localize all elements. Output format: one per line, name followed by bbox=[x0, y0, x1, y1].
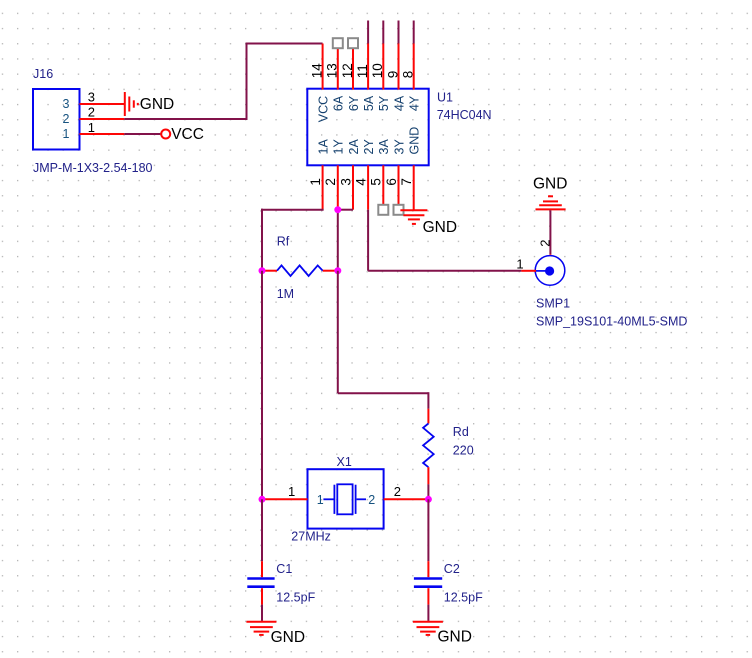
connector J16 body bbox=[33, 89, 80, 150]
wire U1 pin1 to left bus bbox=[261, 209, 324, 211]
J16 pin 1 bbox=[80, 133, 125, 135]
svg-text:2: 2 bbox=[88, 104, 95, 119]
X1 right lead line bbox=[357, 498, 366, 500]
svg-text:2: 2 bbox=[63, 112, 70, 126]
wire left bus down to Rf left bbox=[261, 209, 263, 271]
svg-text:2: 2 bbox=[323, 178, 338, 186]
SMP1 center lead bbox=[535, 270, 548, 272]
U1 pin 11 (top) bbox=[367, 44, 369, 90]
wire Rf right down bbox=[337, 271, 339, 394]
no-connect marker U1 pin 13 bbox=[333, 38, 343, 48]
U1 pin 1 (bottom) bbox=[322, 165, 324, 209]
op-amp U1 body bbox=[307, 89, 428, 166]
svg-text:1: 1 bbox=[88, 120, 95, 135]
J16 pin 2 bbox=[80, 118, 125, 120]
U1 pin 8 (top) bbox=[413, 44, 415, 90]
svg-text:SMP_19S101-40ML5-SMD: SMP_19S101-40ML5-SMD bbox=[536, 314, 687, 328]
svg-text:2: 2 bbox=[537, 240, 552, 247]
svg-text:VCC: VCC bbox=[316, 96, 330, 122]
X1 left lead line bbox=[323, 498, 334, 500]
svg-text:9: 9 bbox=[385, 71, 400, 79]
svg-text:7: 7 bbox=[399, 178, 414, 186]
svg-text:5: 5 bbox=[369, 178, 384, 186]
wire across to Rd bbox=[338, 392, 429, 394]
svg-text:C2: C2 bbox=[444, 562, 460, 576]
no-connect marker U1 pin 5 bbox=[378, 205, 388, 215]
capacitor C1 bbox=[247, 577, 274, 580]
svg-text:GND: GND bbox=[423, 219, 457, 236]
X1 right plate bbox=[355, 485, 357, 514]
svg-text:1: 1 bbox=[317, 493, 324, 507]
U1 pin 4 (bottom) bbox=[367, 165, 369, 209]
wire C1 to ground bbox=[261, 605, 263, 621]
svg-text:3Y: 3Y bbox=[392, 139, 406, 155]
wire from U1 pin 11 off-page bbox=[367, 21, 369, 44]
wire U1 pin4 down bbox=[367, 210, 369, 271]
junction at X1 pin 2 bbox=[425, 496, 432, 503]
svg-text:GND: GND bbox=[533, 175, 567, 192]
svg-text:SMP1: SMP1 bbox=[536, 297, 570, 311]
SMP1 pin 2 bbox=[549, 254, 551, 256]
svg-text:J16: J16 bbox=[33, 67, 53, 81]
svg-text:U1: U1 bbox=[437, 91, 453, 105]
svg-text:1Y: 1Y bbox=[332, 139, 346, 155]
U1 pin 10 (top) bbox=[382, 44, 384, 90]
U1 pin 14 (top) bbox=[322, 44, 324, 90]
svg-text:6: 6 bbox=[384, 178, 399, 186]
svg-text:VCC: VCC bbox=[171, 126, 204, 143]
SMP1 center pin dot bbox=[545, 266, 554, 275]
svg-text:4Y: 4Y bbox=[408, 95, 422, 111]
ground symbol at SMP1 (inverted) bbox=[548, 195, 553, 197]
svg-text:13: 13 bbox=[325, 63, 340, 78]
wire from U1 pin 9 off-page bbox=[398, 21, 400, 44]
svg-text:11: 11 bbox=[355, 64, 370, 78]
capacitor C2 bottom lead bbox=[427, 588, 429, 604]
X1 left plate bbox=[333, 485, 335, 514]
svg-text:GND: GND bbox=[438, 629, 472, 646]
wire junction down to Rf right bbox=[337, 210, 339, 271]
ground symbol at U1 pin 7 bbox=[400, 209, 427, 211]
svg-text:GND: GND bbox=[271, 629, 305, 646]
resistor Rd bottom lead bbox=[427, 467, 429, 484]
svg-text:12.5pF: 12.5pF bbox=[444, 590, 483, 604]
svg-text:27MHz: 27MHz bbox=[291, 530, 331, 544]
junction at U1 pin2 node bbox=[334, 206, 341, 213]
wire X1 junction down to C1 bbox=[261, 499, 263, 561]
VCC power symbol bbox=[161, 130, 170, 139]
svg-text:12.5pF: 12.5pF bbox=[276, 590, 315, 604]
wire from U1 pin 8 off-page bbox=[413, 21, 415, 44]
svg-text:C1: C1 bbox=[276, 562, 292, 576]
svg-text:8: 8 bbox=[401, 71, 416, 79]
wire U1 pin3 to junction bbox=[338, 209, 353, 211]
U1 pin 5 (bottom) bbox=[382, 165, 384, 209]
svg-text:1: 1 bbox=[288, 484, 295, 499]
wire X1 junction down to C2 bbox=[427, 499, 429, 561]
svg-text:14: 14 bbox=[309, 63, 324, 79]
svg-text:6A: 6A bbox=[332, 95, 346, 111]
svg-text:3: 3 bbox=[63, 97, 70, 111]
svg-text:GND: GND bbox=[140, 96, 174, 113]
wire J16 pin2 to U1 pin14 bbox=[124, 44, 322, 120]
U1 pin 3 (bottom) bbox=[352, 165, 354, 209]
svg-text:1M: 1M bbox=[277, 287, 294, 301]
wire down to Rd top bbox=[427, 392, 429, 409]
wire J16 pin1 to VCC bbox=[124, 133, 160, 135]
svg-text:6Y: 6Y bbox=[347, 95, 361, 111]
SMP1 pin 1 bbox=[521, 270, 536, 272]
wire U1 pin4 to SMP1 bbox=[368, 270, 521, 272]
U1 pin 9 (top) bbox=[398, 44, 400, 90]
X1 crystal rectangle bbox=[337, 484, 352, 514]
ground symbol at C2 bbox=[413, 621, 443, 623]
no-connect marker U1 pin 6 bbox=[394, 205, 404, 215]
capacitor C2 bbox=[414, 577, 442, 580]
capacitor C1 top lead bbox=[261, 561, 263, 577]
svg-text:5A: 5A bbox=[362, 95, 376, 111]
wire C2 to ground bbox=[427, 605, 429, 621]
J16 pin 3 bbox=[80, 103, 125, 105]
svg-text:GND: GND bbox=[408, 127, 422, 155]
svg-text:1A: 1A bbox=[316, 139, 330, 155]
svg-text:Rd: Rd bbox=[453, 425, 469, 439]
svg-text:3: 3 bbox=[338, 178, 353, 186]
svg-text:220: 220 bbox=[453, 443, 474, 457]
U1 pin 7 (bottom) bbox=[413, 165, 415, 209]
svg-text:Rf: Rf bbox=[277, 235, 290, 249]
U1 pin 2 (bottom) bbox=[337, 165, 339, 209]
connector SMP1 body bbox=[535, 256, 565, 286]
U1 pin 6 (bottom) bbox=[398, 165, 400, 209]
svg-text:3A: 3A bbox=[377, 139, 391, 155]
wire Rd to X1 junction bbox=[427, 484, 429, 499]
wire from U1 pin 10 off-page bbox=[382, 21, 384, 44]
junction at Rf right bbox=[334, 267, 341, 274]
resistor Rf left lead bbox=[262, 270, 277, 272]
capacitor C1 bottom lead bbox=[261, 588, 263, 604]
svg-text:2: 2 bbox=[394, 484, 401, 499]
junction at Rf left bbox=[259, 267, 266, 274]
resistor Rd bbox=[423, 424, 434, 468]
U1 pin 12 (top) bbox=[352, 44, 354, 90]
ground symbol at J16 pin 3 bbox=[124, 92, 126, 116]
svg-text:2: 2 bbox=[368, 493, 375, 507]
resistor Rf bbox=[277, 265, 323, 276]
no-connect marker U1 pin 12 bbox=[348, 38, 358, 48]
svg-text:5Y: 5Y bbox=[377, 95, 391, 111]
svg-text:2A: 2A bbox=[347, 139, 361, 155]
svg-text:3: 3 bbox=[88, 90, 95, 105]
U1 pin 13 (top) bbox=[337, 44, 339, 90]
X1 pin 1 bbox=[262, 498, 308, 500]
junction at X1 pin 1 bbox=[259, 496, 266, 503]
crystal X1 body bbox=[308, 469, 384, 528]
svg-text:JMP-M-1X3-2.54-180: JMP-M-1X3-2.54-180 bbox=[33, 161, 153, 175]
svg-text:2Y: 2Y bbox=[362, 139, 376, 155]
resistor Rf right lead bbox=[323, 270, 338, 272]
svg-text:1: 1 bbox=[516, 256, 523, 271]
ground symbol at C1 bbox=[246, 621, 276, 623]
wire SMP1 pin2 to ground bbox=[549, 210, 551, 254]
wire Rf left down to X1 bbox=[261, 271, 263, 500]
svg-text:X1: X1 bbox=[337, 455, 352, 469]
svg-text:1: 1 bbox=[63, 127, 70, 141]
svg-text:74HC04N: 74HC04N bbox=[437, 108, 492, 122]
capacitor C2 top lead bbox=[427, 561, 429, 577]
svg-text:4: 4 bbox=[354, 178, 369, 186]
svg-text:10: 10 bbox=[370, 63, 385, 78]
svg-text:12: 12 bbox=[340, 63, 355, 78]
X1 pin 2 bbox=[384, 498, 429, 500]
resistor Rd top lead bbox=[427, 409, 429, 424]
svg-text:1: 1 bbox=[308, 178, 323, 186]
svg-text:4A: 4A bbox=[392, 95, 406, 111]
